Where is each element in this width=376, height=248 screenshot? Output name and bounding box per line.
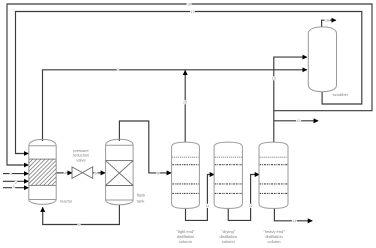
valve pressure reduction valve (72, 167, 93, 179)
svg-text:reactor: reactor (60, 199, 73, 204)
svg-text:scrubber: scrubber (333, 92, 349, 97)
wire reactor effluent stream 4 to valve (56, 172, 72, 174)
svg-text:flash: flash (137, 193, 145, 198)
svg-text:10: 10 (183, 100, 187, 104)
wire inner recycle stream 17: scrubber bottoms right side up, across top, down left, into reactor (16, 12, 362, 154)
reactor vessel (29, 139, 56, 204)
svg-text:9: 9 (157, 171, 159, 175)
wire flash bottoms recycle stream 6 to reactor bottom (43, 205, 120, 225)
svg-text:12: 12 (249, 204, 253, 208)
svg-text:valve: valve (76, 158, 86, 163)
scrubber vessel (308, 27, 336, 92)
svg-text:14: 14 (292, 219, 296, 223)
svg-text:19: 19 (187, 2, 191, 6)
wire light-end bottoms stream 11 to drying column (186, 175, 215, 221)
column heavy end distillation column (259, 142, 288, 208)
svg-text:column: column (222, 239, 235, 244)
wire feed stream 3 (3, 187, 28, 189)
wire valve outlet stream 5 to flash tank (93, 172, 106, 174)
svg-text:6: 6 (78, 223, 80, 227)
svg-text:16: 16 (325, 19, 329, 23)
wire outer recycle stream 19: col3 overhead branch right, up right side, across top, down left, into reactor (7, 4, 372, 165)
wire feed stream 1 (3, 173, 28, 175)
wire feed stream 2 (3, 180, 28, 182)
reactor catalyst hatch (29, 159, 56, 185)
svg-text:15: 15 (297, 119, 301, 123)
wire reactor overhead stream 7 to scrubber (43, 70, 307, 141)
wire heavy-end overhead stream 13 to scrubber top (274, 57, 307, 142)
svg-text:tank: tank (137, 198, 145, 203)
svg-text:13: 13 (272, 76, 276, 80)
svg-text:3: 3 (13, 185, 15, 189)
svg-text:column: column (268, 239, 281, 244)
wire drying bottoms stream 12 to heavy-end column (228, 175, 259, 221)
svg-text:17: 17 (191, 10, 195, 14)
svg-text:7: 7 (117, 68, 119, 72)
svg-text:4: 4 (64, 171, 66, 175)
column drying distillation column (214, 142, 242, 208)
svg-text:11: 11 (206, 204, 210, 208)
wire scrubber overhead stream 16 (322, 20, 336, 26)
svg-text:2: 2 (15, 181, 17, 185)
svg-text:5: 5 (95, 171, 97, 175)
wire purge stream 15 (274, 120, 318, 122)
svg-text:column: column (179, 239, 192, 244)
wire flash overhead stream 9 to light-end column (119, 121, 171, 173)
svg-text:1: 1 (10, 172, 12, 176)
flash tank vessel (106, 139, 134, 205)
wire light-end column overhead stream 10 joining overhead line (184, 70, 186, 142)
column light end distillation column (172, 142, 200, 208)
wire heavy-end bottoms product stream 14 (274, 208, 312, 220)
